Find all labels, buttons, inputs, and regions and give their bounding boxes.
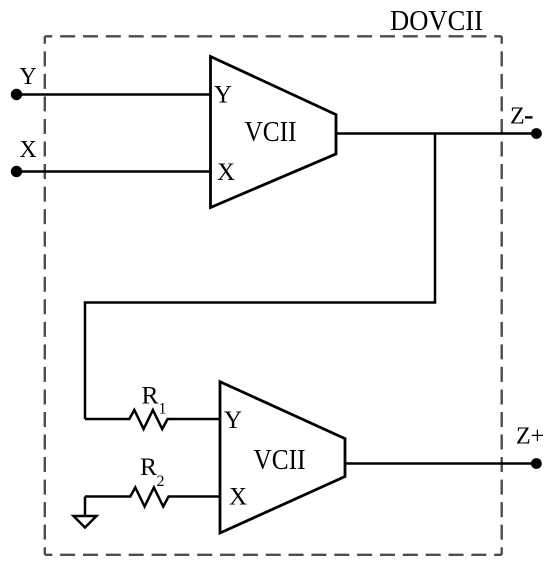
svg-text:VCII: VCII [254,444,306,476]
wire feedback from Z- node down and left to R1 [85,134,435,420]
DOVCII dashed boundary box [45,36,502,555]
svg-text:X: X [19,137,36,163]
ground [84,497,87,517]
svg-text:2: 2 [157,473,165,490]
svg-text:Y: Y [214,82,232,109]
svg-text:Y: Y [224,407,242,434]
svg-text:Z: Z [510,104,525,130]
svg-text:Z+: Z+ [516,424,544,450]
node Z+ terminal dot [531,458,542,469]
op-amp U1 VCII body [211,57,337,208]
node Z- terminal dot [531,128,542,139]
resistor R2 [85,488,220,507]
wire U1 Z output to Z- terminal [336,132,536,135]
resistor R1 [85,410,220,429]
svg-text:1: 1 [159,401,167,418]
op-amp U2 VCII body [220,382,345,533]
wire X input to U1 pin X [16,170,211,173]
node Y input terminal dot [11,89,22,100]
svg-text:DOVCII: DOVCII [390,6,483,37]
svg-text:X: X [229,484,247,511]
svg-text:R: R [141,381,158,410]
wire Y input to U1 pin Y [16,93,211,96]
svg-text:X: X [217,159,235,186]
svg-text:Y: Y [19,64,36,90]
wire U2 Z output to Z+ terminal [345,462,536,465]
svg-text:R: R [140,452,157,481]
svg-text:VCII: VCII [245,116,297,148]
node X input terminal dot [11,166,22,177]
